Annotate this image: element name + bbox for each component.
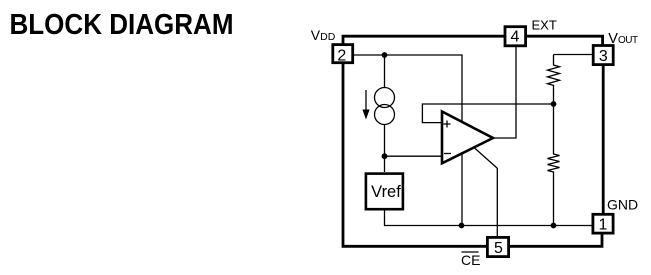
node D (divider tap junction): [551, 101, 557, 107]
svg-text:5: 5: [494, 240, 503, 257]
node A (junction on VDD feed): [382, 52, 388, 58]
svg-text:4: 4: [511, 28, 520, 45]
pin box 3: [593, 46, 613, 65]
wire: Vref bottom rail to pin1: [385, 210, 593, 226]
pin box 4: [505, 27, 526, 46]
current source I1 (two overlapping circles): [375, 88, 395, 125]
svg-text:VOUT: VOUT: [608, 31, 638, 47]
resistor R1 (upper divider): [548, 55, 560, 105]
svg-text:3: 3: [599, 48, 608, 65]
svg-text:Vref: Vref: [371, 183, 401, 201]
svg-text:1: 1: [599, 217, 608, 234]
wire: op-amp output to pin4 EXT: [493, 47, 516, 138]
wire: op-amp to pin5 CE (diagonal): [474, 148, 497, 237]
wire: divider top to pin3: [554, 54, 593, 56]
op-amp U1 (comparator triangle): [442, 112, 493, 164]
Vref block: [366, 174, 403, 210]
pin box 5: [487, 237, 508, 256]
wire: left bus and bottom rail (pin2 to bottom-right riser into pin1): [343, 64, 602, 246]
op-amp minus sign: [444, 153, 451, 155]
node C (VDD feed to bottom rail junction): [459, 223, 465, 229]
svg-text:BLOCK DIAGRAM: BLOCK DIAGRAM: [10, 9, 234, 41]
node E (divider bottom junction): [551, 223, 557, 229]
svg-text:CE: CE: [461, 252, 480, 268]
wire: current source top connection: [384, 55, 386, 88]
wire: non-inverting input from divider tap: [422, 104, 553, 123]
wire: VDD internal feed from pin2 to node A and down behind op-amp: [354, 55, 462, 226]
CE overline: [462, 251, 479, 253]
current direction arrow: [362, 90, 369, 120]
pin box 1: [593, 214, 613, 233]
wire: VDD top rail (pin2 riser to pin3 drop): [343, 36, 603, 45]
svg-text:VDD: VDD: [311, 27, 336, 43]
svg-text:2: 2: [337, 48, 346, 65]
resistor R2 (lower divider): [548, 105, 560, 226]
svg-text:GND: GND: [607, 197, 638, 213]
wire: right bus (pin3 bottom to pin1 top): [602, 65, 605, 214]
wire: inverting input of op-amp: [385, 155, 442, 157]
node B (current source / Vref / inverting input junction): [382, 153, 388, 159]
svg-text:EXT: EXT: [532, 18, 557, 33]
pin box 2: [333, 45, 353, 63]
wire: current source bottom to Vref top: [384, 125, 386, 173]
op-amp plus sign: [444, 121, 451, 128]
